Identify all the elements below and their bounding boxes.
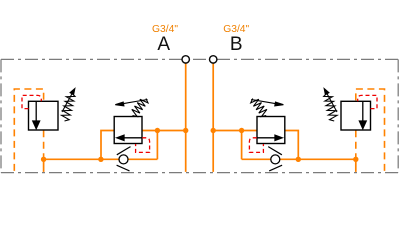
wire: lower line right xyxy=(242,158,356,160)
valve V3 red pilot line xyxy=(249,138,263,153)
valve V2 spring xyxy=(132,99,148,117)
valve V1 flow arrow xyxy=(33,102,40,129)
port A circle xyxy=(182,56,189,63)
wire: left boundary line xyxy=(0,59,2,172)
valve V3 spring xyxy=(251,99,267,117)
check valve CV2 xyxy=(268,147,282,171)
valve V2 flow arrow xyxy=(117,135,142,140)
svg-text:A: A xyxy=(157,34,170,55)
wire: top boundary line xyxy=(1,58,398,60)
valve V1 spring xyxy=(62,93,75,121)
node: riser/main junction left xyxy=(155,128,160,133)
junction dots xyxy=(41,128,359,162)
svg-text:B: B xyxy=(230,34,243,55)
wire: right drain to tank edge xyxy=(355,159,357,172)
node: V2 inlet lower junction xyxy=(98,157,103,162)
valve V3 flow arrow xyxy=(257,135,282,140)
valve V4 red pilot line xyxy=(358,95,377,108)
solid orange wires xyxy=(44,63,356,172)
node: A line junction xyxy=(183,128,188,133)
valve V2 red pilot line xyxy=(136,138,150,153)
orange dashed external drain piping, right valve V4 xyxy=(356,89,385,171)
node: left drain junction xyxy=(41,157,46,162)
wire: check bypass riser right xyxy=(241,131,243,160)
valve V2 body (left middle reducing valve) xyxy=(114,117,142,144)
wire: left drain to tank edge xyxy=(43,159,45,172)
valve V3 body (right middle reducing valve) xyxy=(257,117,285,144)
wire: main line B to valve V3 xyxy=(213,130,257,132)
wire: V2 inlet corner xyxy=(101,131,114,160)
node: riser/main junction right xyxy=(239,128,244,133)
wire: port A down line xyxy=(185,63,187,172)
valve V2 adjustment arrow xyxy=(115,100,147,106)
node: right drain junction xyxy=(353,157,358,162)
valve V4 body (right end reducing valve) xyxy=(341,101,371,130)
wire: main line valve V2 outlet to A xyxy=(142,130,186,132)
valve V4 spring xyxy=(324,93,337,121)
valve V1 adjustment arrow xyxy=(62,89,75,112)
wire: right boundary line xyxy=(397,59,399,172)
enclosure boundary (gray dash-dot box) xyxy=(1,59,398,172)
wire: lower line left xyxy=(44,158,158,160)
wire: port B down line xyxy=(212,63,214,172)
port B circle xyxy=(210,56,217,63)
valve V1 red pilot line xyxy=(22,95,41,108)
node: V3 inlet lower junction xyxy=(296,157,301,162)
valve V1 body (left end reducing valve) xyxy=(29,101,59,130)
wire: V3 inlet corner xyxy=(285,131,299,160)
orange dashed external drain piping, left valve V1 xyxy=(14,89,43,171)
node: B line junction xyxy=(211,128,216,133)
wire: bottom boundary line xyxy=(1,172,398,174)
valve V4 adjustment arrow xyxy=(324,89,337,112)
valve V4 flow arrow xyxy=(359,102,366,129)
wire: check bypass riser left xyxy=(156,131,158,160)
check valve CV1 xyxy=(117,147,131,171)
valve V3 adjustment arrow xyxy=(251,100,283,106)
